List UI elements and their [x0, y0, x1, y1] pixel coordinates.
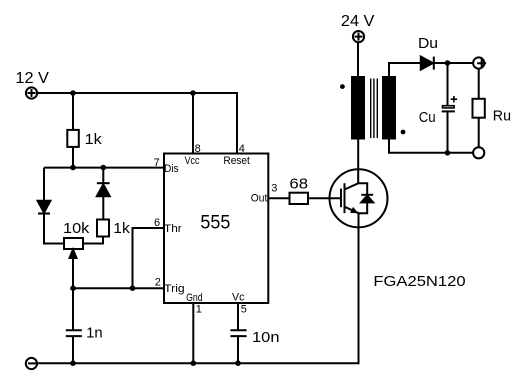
svg-text:Dis: Dis: [164, 163, 179, 175]
svg-text:5: 5: [241, 304, 247, 316]
resistor R 1k top: [67, 130, 79, 147]
junction gnd/C2: [235, 360, 241, 366]
Q1 emitter diagonal with arrow: [345, 207, 359, 214]
svg-text:68: 68: [289, 175, 308, 192]
svg-text:4: 4: [239, 143, 245, 155]
svg-text:2: 2: [155, 276, 161, 288]
junction Dis/R1: [70, 165, 76, 171]
capacitor Cu plus plate: [443, 106, 455, 108]
junction 12V/R1: [70, 90, 76, 96]
terminal ground: [26, 358, 37, 369]
wire 24V to primary: [357, 42, 359, 77]
ground terminal minus: [28, 362, 37, 364]
junction gnd/C1: [70, 360, 76, 366]
junction 12V/pin8: [190, 90, 196, 96]
svg-text:1: 1: [196, 304, 202, 316]
ground rail: [28, 227, 359, 363]
wire Vc pin5 to C2: [237, 303, 239, 330]
svg-text:6: 6: [154, 217, 160, 229]
resistor Ru: [473, 99, 485, 118]
Q1 collector diagonal: [345, 183, 359, 189]
svg-text:Out: Out: [251, 193, 267, 205]
Q1 internal diode branch: [359, 183, 368, 213]
potentiometer 10k body: [64, 238, 83, 249]
capacitor C2 10n: [230, 330, 246, 336]
transformer core lines: [371, 79, 378, 139]
svg-text:1k: 1k: [85, 131, 103, 148]
terminal out plus: [473, 57, 486, 68]
wire Dis net: [44, 167, 164, 169]
svg-text:1k: 1k: [113, 220, 130, 237]
diode Du: [421, 57, 434, 70]
wire Gnd pin1: [192, 303, 194, 363]
wire pot right to R2: [83, 237, 103, 244]
svg-text:Thr: Thr: [164, 223, 182, 235]
diode D2 up: [97, 183, 110, 196]
wire Vcc pin8 drop: [192, 93, 194, 154]
wire 12V rail: [37, 93, 237, 154]
Q1 diode: [361, 195, 373, 203]
wire Trig net: [73, 287, 164, 289]
resistor R2 1k mid: [97, 220, 109, 237]
IC U1 555 box: [164, 154, 268, 304]
terminal 12V: [26, 87, 37, 98]
junction Dis/D2: [101, 165, 107, 171]
capacitor C1 1n: [66, 330, 82, 336]
wire Cu to bottom: [447, 111, 449, 152]
junction Trig/wiper: [70, 285, 76, 291]
wire Thr net: [133, 228, 165, 288]
wire R2 to D2: [102, 196, 104, 220]
phase dot primary: [340, 84, 345, 89]
svg-text:Gnd: Gnd: [186, 292, 203, 304]
wire Trig to C1: [72, 288, 74, 330]
wire D2 to Dis: [102, 168, 104, 184]
svg-text:Cu: Cu: [419, 109, 436, 126]
wire Ru bottom: [478, 118, 480, 148]
junction gnd/pin1: [191, 360, 197, 366]
svg-text:Ru: Ru: [493, 108, 511, 125]
wire C1 to gnd: [72, 336, 74, 363]
wire Dis to D1: [43, 168, 45, 201]
svg-text:10n: 10n: [252, 329, 280, 346]
diode D1 down: [38, 201, 51, 214]
svg-text:12 V: 12 V: [15, 70, 49, 87]
wire Cu branch top: [447, 63, 449, 105]
svg-text:FGA25N120: FGA25N120: [373, 273, 465, 290]
svg-text:8: 8: [195, 143, 201, 155]
transformer T1 primary winding: [352, 77, 364, 139]
terminal 24V: [353, 31, 364, 42]
Q1 gate bar: [340, 189, 342, 208]
pot wiper arrow: [70, 250, 77, 289]
svg-text:Du: Du: [418, 35, 438, 52]
wire C2 to gnd: [237, 336, 239, 363]
svg-text:Vc: Vc: [232, 292, 245, 304]
wire secondary bottom: [389, 139, 473, 153]
wire collector to transformer: [357, 139, 359, 184]
phase dot secondary: [401, 130, 406, 135]
Cu plus sign: [451, 96, 457, 102]
svg-text:Trig: Trig: [164, 283, 185, 295]
wire 12V to R1: [72, 93, 74, 130]
junction sec top/Cu: [445, 60, 451, 66]
wire Out pin3: [268, 197, 289, 199]
transistor Q1 IGBT circle: [330, 169, 388, 227]
svg-text:10k: 10k: [63, 220, 90, 237]
svg-text:7: 7: [154, 157, 160, 169]
wire secondary top: [389, 63, 421, 77]
capacitor Cu bottom plate: [442, 110, 455, 112]
svg-text:Reset: Reset: [223, 155, 250, 167]
wire Du to plus terminal: [434, 62, 473, 64]
junction sec bottom/Cu: [445, 150, 451, 156]
transformer T1 secondary winding: [383, 77, 395, 139]
wire D1 to pot left: [44, 213, 64, 244]
wire Ru top: [478, 69, 480, 99]
Q1 body bar: [344, 183, 346, 213]
svg-text:24 V: 24 V: [341, 13, 375, 30]
wire R3 to gate: [308, 197, 341, 199]
terminal out minus: [473, 147, 484, 158]
svg-text:3: 3: [271, 183, 277, 195]
svg-text:Vcc: Vcc: [185, 155, 200, 167]
svg-text:1n: 1n: [86, 325, 103, 342]
resistor R3 68: [290, 193, 309, 204]
wire emitter to gnd: [358, 213, 360, 363]
junction Trig/Thr: [130, 285, 136, 291]
svg-text:555: 555: [200, 213, 230, 234]
wire R1 to Dis: [72, 147, 74, 168]
